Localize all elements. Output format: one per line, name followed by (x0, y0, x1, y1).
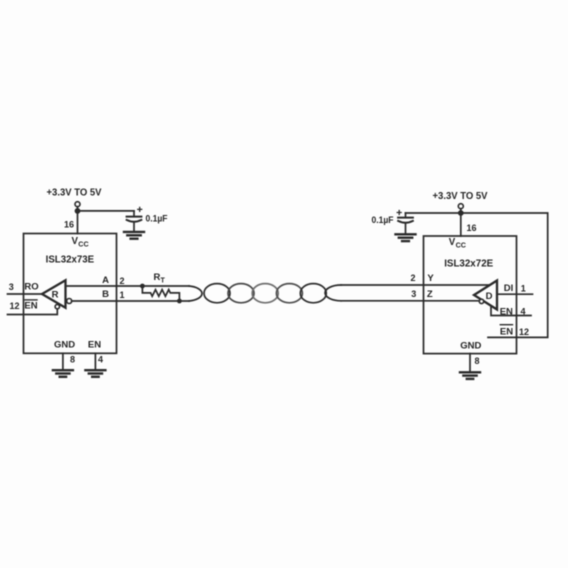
twist loop 2 (228, 284, 254, 303)
wire (right supply rail: cap to EN-bar riser) (406, 213, 548, 337)
supply terminal (left, open circle) (75, 202, 80, 207)
capacitor 0.1uF (right) (397, 211, 413, 235)
IC U1 ISL32x73E box (24, 234, 117, 354)
svg-text:2: 2 (410, 273, 415, 283)
svg-text:+3.3V TO 5V: +3.3V TO 5V (47, 188, 102, 199)
ground (under right capacitor) (396, 234, 416, 241)
inversion bubble on Z output (479, 299, 483, 303)
svg-text:D: D (486, 291, 493, 302)
svg-text:A: A (102, 275, 109, 286)
svg-text:Z: Z (427, 289, 433, 300)
twist loop 4 (276, 284, 302, 303)
svg-text:+3.3V TO 5V: +3.3V TO 5V (433, 191, 488, 202)
svg-text:EN: EN (24, 301, 37, 312)
wire (left supply terminal to VCC pin 16) (77, 207, 79, 234)
ground (U2 pin 8) (460, 372, 480, 379)
wire GND pin 8 (U1) (62, 353, 64, 369)
svg-text:0.1µF: 0.1µF (146, 213, 168, 223)
svg-text:0.1µF: 0.1µF (372, 215, 394, 225)
svg-text:EN: EN (500, 306, 513, 317)
svg-text:EN: EN (88, 340, 101, 351)
svg-text:R: R (154, 272, 161, 283)
svg-text:B: B (102, 289, 109, 300)
overline of EN-bar (U2) (500, 324, 512, 326)
pin label EN-bar (left) (24, 301, 37, 312)
wire line B (U1 to cable) (72, 300, 189, 302)
svg-text:RO: RO (24, 281, 38, 292)
junction (RT bottom on line B) (177, 299, 182, 304)
twisted pair cable right jacket end (325, 285, 341, 301)
driver amp D (U2) (474, 281, 497, 310)
wire (right supply terminal down to VCC pin 16) (460, 209, 462, 236)
svg-text:8: 8 (474, 356, 479, 366)
resistor RT (142, 286, 179, 301)
junction (RT top on line A) (140, 284, 145, 289)
pin label VCC (U1) (72, 236, 89, 248)
wire EN pin 4 (U1) (94, 353, 96, 369)
ground (U1 pin 4) (85, 370, 105, 377)
ground (under left capacitor) (124, 232, 144, 239)
svg-text:CC: CC (456, 241, 466, 250)
wire EN (U2 enable from triangle to pin 4 stub) (491, 306, 531, 315)
receiver amp R (U1) (42, 280, 66, 307)
twist loop 1 (204, 284, 230, 303)
junction (right supply node) (458, 210, 464, 216)
svg-text:EN: EN (500, 327, 513, 338)
wire (left supply to capacitor) (78, 210, 135, 212)
svg-text:R: R (52, 290, 59, 301)
svg-text:ISL32x72E: ISL32x72E (444, 258, 493, 269)
svg-text:4: 4 (98, 355, 103, 365)
junction (left supply node) (75, 208, 81, 214)
svg-text:CC: CC (78, 240, 88, 249)
capacitor 0.1uF (left) (127, 207, 142, 231)
pin label VCC (U2) (449, 237, 466, 249)
twist loop 5 (300, 284, 326, 303)
svg-text:4: 4 (520, 307, 525, 317)
twisted pair cable left jacket end (189, 286, 202, 301)
wire RO output (pin 3 stub) (8, 293, 43, 295)
svg-text:1: 1 (521, 283, 526, 293)
svg-text:2: 2 (119, 276, 124, 286)
svg-text:DI: DI (504, 283, 514, 294)
ground (U1 pin 8) (53, 370, 73, 377)
enable bubble (U1 EN-bar) (55, 304, 59, 308)
wire DI (U2 pin 1 stub) (497, 293, 533, 295)
svg-text:1: 1 (119, 290, 124, 300)
wire line A (U1 to cable) (66, 285, 190, 287)
wire line Z (cable to U2) (341, 300, 478, 302)
inversion bubble on B input (67, 299, 72, 304)
svg-text:ISL32x73E: ISL32x73E (46, 255, 95, 266)
svg-text:16: 16 (467, 223, 477, 233)
wire EN-bar (pin 12 stub to enable bubble) (8, 309, 58, 315)
svg-text:GND: GND (54, 340, 75, 351)
IC U2 ISL32x72E box (424, 236, 517, 354)
wire GND pin 8 (U2) (469, 354, 471, 372)
svg-text:8: 8 (70, 355, 75, 365)
reference label RT (154, 272, 166, 284)
svg-text:T: T (161, 277, 166, 284)
svg-text:16: 16 (64, 220, 74, 230)
wire line Y (cable to U2) (341, 284, 489, 286)
supply terminal (right, open circle) (458, 204, 463, 209)
svg-text:12: 12 (9, 301, 19, 311)
svg-text:GND: GND (460, 340, 481, 351)
svg-text:Y: Y (427, 273, 434, 284)
svg-text:3: 3 (411, 289, 416, 299)
twist loop 3 (252, 284, 278, 303)
svg-text:12: 12 (519, 327, 529, 337)
svg-text:3: 3 (9, 282, 14, 292)
